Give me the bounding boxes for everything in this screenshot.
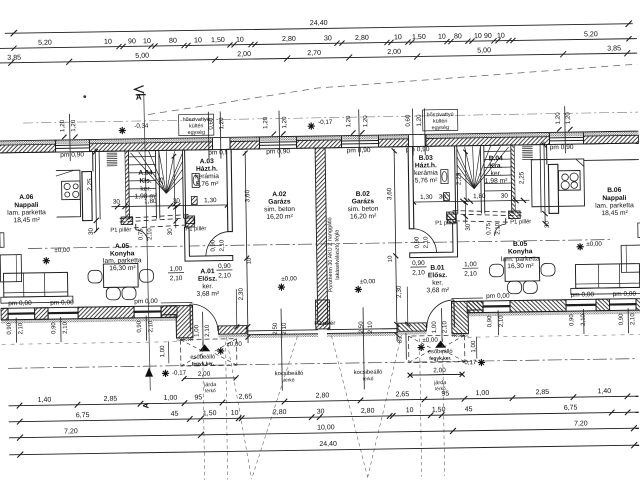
svg-text:30: 30	[113, 199, 121, 206]
bottom window dim lines	[15, 318, 17, 343]
svg-text:2,80: 2,80	[282, 35, 296, 43]
svg-text:Konyha: Konyha	[508, 248, 533, 255]
fraction 1,00 2,10 B	[462, 261, 478, 278]
svg-text:ker.: ker.	[491, 170, 502, 177]
svg-text:A.01: A.01	[200, 268, 215, 275]
svg-text:3,60: 3,60	[244, 189, 251, 202]
svg-text:95: 95	[194, 394, 202, 401]
svg-text:A.06: A.06	[19, 194, 34, 201]
svg-text:5,20: 5,20	[584, 30, 598, 38]
hall dim 2,25	[95, 148, 96, 231]
svg-text:2,10: 2,10	[147, 228, 153, 240]
garage front speckle	[247, 334, 318, 338]
garage dim vertical	[235, 289, 238, 328]
svg-text:B.06: B.06	[607, 187, 622, 194]
overhang dashed line left	[2, 342, 178, 345]
svg-text:2,70: 2,70	[307, 49, 321, 57]
svg-text:A.04: A.04	[138, 170, 153, 177]
svg-text:1,20: 1,20	[345, 115, 352, 128]
svg-text:95: 95	[441, 391, 449, 398]
svg-text:±0,00: ±0,00	[54, 247, 70, 254]
svg-text:0,90: 0,90	[619, 313, 625, 325]
garage front wall lines	[247, 330, 318, 331]
wall A06-hall	[92, 151, 94, 171]
svg-text:lam. parketta: lam. parketta	[103, 257, 142, 265]
svg-text:45: 45	[171, 411, 179, 418]
bottom exterior wall left unit	[1, 317, 177, 323]
svg-text:30: 30	[501, 193, 509, 200]
svg-text:3,85: 3,85	[607, 44, 621, 52]
svg-text:7,20: 7,20	[64, 428, 78, 435]
fraction 0,90 2,10 A	[216, 263, 232, 280]
svg-text:fegyk.ker.: fegyk.ker.	[429, 356, 451, 362]
svg-text:A.05: A.05	[115, 243, 130, 250]
svg-text:10: 10	[194, 36, 202, 44]
svg-text:5,00: 5,00	[135, 52, 149, 60]
svg-text:90: 90	[128, 37, 136, 45]
svg-text:2,10: 2,10	[423, 236, 429, 248]
svg-text:6,75: 6,75	[76, 412, 90, 419]
svg-text:16,30 m²: 16,30 m²	[507, 263, 534, 270]
kitchen counter B	[531, 159, 584, 207]
svg-text:sim. beton: sim. beton	[348, 206, 379, 213]
svg-text:pm 0,00: pm 0,00	[134, 298, 158, 305]
svg-text:1,00: 1,00	[170, 266, 183, 273]
svg-text:P1 pillér: P1 pillér	[435, 220, 456, 226]
svg-text:0,90: 0,90	[412, 260, 425, 267]
svg-text:1,50: 1,50	[432, 407, 446, 414]
svg-text:lakáselválasztó tégla: lakáselválasztó tégla	[334, 230, 341, 280]
svg-text:lam. parketta: lam. parketta	[595, 202, 634, 210]
top exterior wall with windows	[0, 138, 212, 145]
svg-text:1,20: 1,20	[565, 112, 572, 125]
svg-text:0,90: 0,90	[487, 315, 493, 327]
svg-text:2,10: 2,10	[495, 222, 501, 234]
svg-text:lam. parketta: lam. parketta	[7, 209, 46, 217]
svg-text:3,68 m²: 3,68 m²	[426, 287, 450, 294]
svg-text:2,10: 2,10	[581, 313, 587, 325]
esobealo dashed outline	[181, 339, 237, 366]
svg-text:1,20: 1,20	[416, 114, 423, 127]
svg-text:30: 30	[324, 34, 332, 42]
level mark -0,34	[119, 127, 126, 134]
svg-text:-0,17: -0,17	[462, 359, 477, 366]
furniture right unit (sofa, table, chairs)	[575, 264, 639, 289]
stove B	[558, 170, 580, 190]
svg-text:Kra.: Kra.	[489, 163, 502, 170]
svg-text:pm 0,00: pm 0,00	[8, 300, 32, 307]
kocsibealo front dash-dot line	[8, 359, 638, 369]
fraction 1,00 2,10 A	[168, 266, 184, 283]
svg-text:hőszivattyú: hőszivattyú	[183, 117, 210, 123]
svg-text:2,65: 2,65	[239, 394, 253, 401]
dim line 1,00 esobealo	[168, 341, 170, 363]
svg-text:esőbeálló: esőbeálló	[428, 349, 453, 355]
svg-text:10: 10	[394, 33, 402, 41]
party wall Porotherm 30	[315, 148, 328, 324]
svg-text:B.02: B.02	[356, 191, 371, 198]
bottom dim line 4	[9, 445, 639, 455]
svg-text:1,50: 1,50	[412, 33, 426, 41]
svg-text:2,50: 2,50	[358, 321, 365, 334]
svg-text:egység: egység	[188, 130, 205, 136]
svg-text:2,10: 2,10	[219, 239, 225, 251]
svg-text:esőbeálló: esőbeálló	[190, 354, 215, 360]
svg-text:P1 pillér: P1 pillér	[110, 227, 131, 233]
svg-text:±0,00: ±0,00	[586, 241, 602, 248]
esobealo corner wall	[161, 305, 193, 338]
entrance threshold	[218, 326, 247, 335]
svg-text:P1 pillér: P1 pillér	[185, 226, 206, 232]
pillar P1 left	[121, 217, 133, 225]
dashed boundary slope line	[147, 64, 638, 115]
svg-text:1,00: 1,00	[159, 345, 166, 358]
pillar P1 right	[185, 216, 195, 224]
svg-text:Elősz.: Elősz.	[428, 272, 448, 279]
svg-text:2,30: 2,30	[238, 288, 245, 301]
svg-text:kültéri: kültéri	[433, 119, 447, 125]
svg-text:0,90: 0,90	[414, 236, 420, 248]
svg-text:kocsibeálló: kocsibeálló	[354, 370, 383, 376]
svg-text:30: 30	[88, 227, 95, 235]
svg-text:1,00: 1,00	[476, 390, 490, 397]
svg-text:1,30: 1,30	[420, 194, 433, 201]
svg-text:10: 10	[497, 32, 505, 40]
svg-text:18,45 m²: 18,45 m²	[601, 210, 628, 217]
svg-text:2,25: 2,25	[455, 172, 462, 185]
svg-text:18,45 m²: 18,45 m²	[13, 217, 40, 224]
svg-text:A: A	[136, 93, 142, 102]
svg-text:Nappali: Nappali	[14, 202, 38, 209]
svg-text:2,10: 2,10	[464, 271, 477, 278]
svg-text:±0,00: ±0,00	[281, 275, 297, 282]
svg-text:30: 30	[439, 194, 447, 201]
svg-text:hőszivattyú: hőszivattyú	[427, 112, 454, 118]
svg-text:30: 30	[167, 228, 174, 236]
svg-text:2,00: 2,00	[433, 367, 446, 374]
svg-text:B.03: B.03	[419, 155, 434, 162]
svg-text:1,40: 1,40	[38, 397, 52, 404]
svg-text:pm 0,00: pm 0,00	[50, 299, 74, 306]
entrance door leaf and arc	[189, 304, 191, 331]
pillar P2 center	[315, 300, 329, 329]
svg-text:10: 10	[104, 38, 112, 46]
dimension line 24,40 top	[5, 24, 633, 34]
svg-text:2,10: 2,10	[148, 320, 154, 332]
svg-text:1,80: 1,80	[144, 198, 157, 205]
furniture left unit (sofa, table, chairs)	[3, 272, 67, 297]
svg-text:egység: egység	[432, 125, 449, 131]
svg-text:2,85: 2,85	[536, 389, 550, 396]
svg-text:3,85: 3,85	[7, 54, 21, 62]
svg-text:pm 0,00: pm 0,00	[571, 291, 595, 298]
svg-text:24,40: 24,40	[319, 441, 337, 448]
heat pump unit B label	[423, 109, 458, 131]
svg-text:10: 10	[231, 410, 239, 417]
svg-text:1,50: 1,50	[211, 36, 225, 44]
svg-text:1,80: 1,80	[473, 193, 486, 200]
dimension chain line 2 top	[0, 39, 637, 49]
svg-text:1,00: 1,00	[164, 395, 178, 402]
svg-text:2,65: 2,65	[396, 391, 410, 398]
svg-text:0,90: 0,90	[7, 322, 13, 334]
stove A	[62, 181, 81, 200]
svg-text:fegyk.ker.: fegyk.ker.	[192, 361, 214, 367]
svg-text:16,20 m²: 16,20 m²	[350, 213, 377, 220]
svg-text:2,80: 2,80	[316, 392, 330, 399]
section line A-A	[144, 92, 151, 391]
svg-text:2,10: 2,10	[630, 313, 636, 325]
svg-text:2,80: 2,80	[273, 409, 287, 416]
svg-text:B.05: B.05	[513, 241, 528, 248]
svg-text:Garázs: Garázs	[268, 198, 291, 205]
svg-text:P2 pillér: P2 pillér	[314, 321, 335, 327]
garage west wall	[227, 149, 233, 231]
svg-text:5,76 m²: 5,76 m²	[196, 181, 220, 188]
esobealo dim line 2,00	[183, 377, 237, 380]
svg-text:pm 0,90: pm 0,90	[266, 148, 290, 155]
svg-text:80: 80	[454, 32, 462, 40]
svg-text:30: 30	[317, 408, 325, 415]
svg-text:2,25: 2,25	[518, 171, 525, 184]
window dim lines top	[69, 114, 72, 161]
svg-text:2,10: 2,10	[18, 322, 24, 334]
svg-text:10: 10	[406, 407, 414, 414]
svg-text:ker.: ker.	[202, 283, 213, 290]
svg-text:pm 0,00: pm 0,00	[486, 293, 510, 300]
svg-text:pm 0,90: pm 0,90	[60, 151, 84, 158]
svg-text:30: 30	[173, 198, 181, 205]
svg-text:2,80: 2,80	[355, 34, 369, 42]
svg-text:24,40: 24,40	[310, 18, 328, 27]
svg-text:10: 10	[247, 257, 253, 264]
svg-text:1,00: 1,00	[470, 340, 477, 353]
svg-text:10,00: 10,00	[317, 424, 335, 431]
svg-text:1,20: 1,20	[281, 116, 288, 129]
svg-text:-0,17: -0,17	[318, 119, 333, 126]
svg-text:10: 10	[438, 33, 446, 41]
svg-text:ker.: ker.	[432, 280, 443, 287]
dimension chain line 3 top	[0, 53, 637, 63]
svg-text:7,20: 7,20	[574, 420, 588, 427]
svg-text:16,20 m²: 16,20 m²	[266, 213, 293, 220]
stair dim line	[111, 205, 231, 207]
boiler A03	[191, 196, 197, 204]
svg-text:5,76 m²: 5,76 m²	[415, 177, 439, 184]
svg-text:1,00: 1,00	[193, 324, 200, 337]
entrance arrow	[199, 344, 210, 351]
svg-text:0,75: 0,75	[486, 222, 492, 234]
svg-text:0,90: 0,90	[51, 322, 57, 334]
svg-text:±0,00: ±0,00	[422, 337, 438, 344]
svg-text:1,40: 1,40	[597, 388, 611, 395]
svg-text:80: 80	[169, 37, 177, 45]
svg-text:kerámia: kerámia	[195, 173, 219, 180]
svg-text:10: 10	[388, 255, 394, 262]
svg-text:2,00: 2,00	[198, 371, 211, 378]
svg-text:2,30: 2,30	[396, 285, 403, 298]
svg-text:10: 10	[143, 37, 151, 45]
right unit mirrored geometry	[324, 140, 640, 390]
svg-text:ker.: ker.	[140, 186, 151, 193]
svg-text:térkő: térkő	[363, 376, 374, 382]
radiator	[107, 152, 117, 154]
svg-text:2,80: 2,80	[361, 408, 375, 415]
overhang dashed line right	[468, 335, 640, 338]
svg-text:85: 85	[397, 336, 403, 343]
svg-text:kültéri: kültéri	[189, 123, 203, 129]
svg-text:P1 pillér: P1 pillér	[510, 219, 531, 225]
heat pump unit A label	[179, 114, 214, 136]
svg-text:2,10: 2,10	[281, 322, 288, 335]
svg-text:45: 45	[465, 406, 473, 413]
svg-text:pm 0,90: pm 0,90	[347, 147, 371, 154]
svg-text:1,20: 1,20	[555, 112, 562, 125]
svg-text:térkő: térkő	[205, 388, 216, 394]
svg-text:Kls.: Kls.	[139, 178, 152, 185]
svg-text:B.04: B.04	[489, 155, 504, 162]
svg-text:2,10: 2,10	[218, 272, 231, 279]
svg-text:-0,17: -0,17	[172, 370, 187, 377]
svg-text:pm 0,90: pm 0,90	[550, 144, 574, 151]
svg-text:0,75: 0,75	[138, 228, 144, 240]
svg-text:sim. beton: sim. beton	[264, 206, 295, 213]
svg-text:1,00: 1,00	[431, 321, 438, 334]
svg-text:Házt.h.: Házt.h.	[415, 162, 437, 169]
svg-text:3,60: 3,60	[386, 187, 393, 200]
svg-text:1,00: 1,00	[464, 261, 477, 268]
entrance door dim line	[202, 312, 205, 346]
fraction 0,90 2,10 B	[410, 260, 426, 277]
svg-text:2,10: 2,10	[170, 275, 183, 282]
svg-text:2,50: 2,50	[272, 322, 279, 335]
svg-text:0,90: 0,90	[569, 314, 575, 326]
svg-text:10: 10	[236, 36, 244, 44]
svg-text:térkő: térkő	[284, 377, 295, 383]
center axis dash-dot line	[28, 240, 612, 249]
svg-text:B.01: B.01	[430, 265, 445, 272]
bottom dim line 3	[9, 428, 639, 438]
svg-text:1,20: 1,20	[262, 116, 269, 129]
pillar dashed line	[134, 225, 186, 228]
svg-text:2,25: 2,25	[158, 177, 165, 190]
svg-text:2,10: 2,10	[499, 315, 505, 327]
stair door	[136, 230, 148, 242]
svg-text:2,00: 2,00	[237, 50, 251, 58]
kitchen counter A	[56, 170, 81, 217]
svg-text:kocsibeálló: kocsibeálló	[275, 371, 304, 377]
svg-text:0,60: 0,60	[405, 114, 412, 127]
svg-text:A.02: A.02	[272, 191, 287, 198]
svg-text:Porotherm 30 AKU Z hanggátló: Porotherm 30 AKU Z hanggátló	[327, 217, 334, 292]
staircase	[99, 151, 100, 219]
washbasin A03	[192, 173, 199, 187]
garage door dim line	[281, 309, 282, 391]
svg-text:0,90: 0,90	[210, 239, 216, 251]
svg-text:2,10: 2,10	[367, 321, 374, 334]
svg-text:Garázs: Garázs	[352, 198, 375, 205]
svg-text:±0,00: ±0,00	[226, 341, 242, 348]
svg-text:0,90: 0,90	[218, 263, 231, 270]
level mark -0,17	[308, 122, 315, 129]
svg-text:5,20: 5,20	[38, 39, 52, 47]
svg-text:16,30 m²: 16,30 m²	[109, 265, 136, 272]
svg-text:-0,34: -0,34	[134, 123, 149, 130]
stray dot	[83, 95, 86, 98]
svg-text:2,10: 2,10	[63, 321, 69, 333]
pillar above konyha wall	[185, 218, 194, 227]
carport dashed tracks	[203, 342, 205, 480]
svg-text:1,20: 1,20	[362, 115, 369, 128]
svg-text:A.03: A.03	[200, 158, 215, 165]
svg-text:1,98 m²: 1,98 m²	[485, 178, 509, 185]
svg-text:30: 30	[465, 223, 472, 231]
svg-text:2,10: 2,10	[441, 320, 448, 333]
svg-text:3,68 m²: 3,68 m²	[196, 291, 220, 298]
svg-text:kerámia: kerámia	[414, 170, 438, 177]
bottom dim line 1	[9, 396, 639, 406]
counter line B06 right edge	[584, 159, 639, 162]
svg-text:0,90: 0,90	[137, 320, 143, 332]
svg-text:Elősz.: Elősz.	[198, 276, 218, 283]
svg-text:1,20: 1,20	[218, 117, 225, 130]
svg-text:1,30: 1,30	[204, 197, 217, 204]
svg-text:±0,00: ±0,00	[360, 278, 376, 285]
svg-text:2,85: 2,85	[104, 396, 118, 403]
konyha-eloszoba wall	[184, 226, 232, 261]
svg-text:6,75: 6,75	[564, 405, 578, 412]
svg-text:10: 10	[474, 32, 482, 40]
bottom dim line 2	[9, 412, 639, 422]
svg-text:járda: járda	[433, 380, 446, 386]
pillar 30 dim line	[174, 206, 176, 228]
svg-text:2,10: 2,10	[412, 269, 425, 276]
svg-text:30: 30	[544, 220, 551, 228]
svg-text:Nappali: Nappali	[602, 195, 626, 202]
svg-text:Házt.h.: Házt.h.	[196, 166, 218, 173]
dim 85 B	[405, 333, 407, 360]
svg-text:1,20: 1,20	[70, 119, 77, 132]
svg-text:2,00: 2,00	[387, 48, 401, 56]
svg-text:2,10: 2,10	[204, 324, 211, 337]
svg-text:1,50: 1,50	[203, 410, 217, 417]
svg-text:90: 90	[484, 32, 492, 40]
svg-text:járda: járda	[203, 382, 216, 388]
svg-text:pm 0,00: pm 0,00	[613, 291, 637, 298]
svg-text:5,00: 5,00	[477, 46, 491, 54]
garage door to A01 arc	[206, 232, 231, 256]
svg-text:2,25: 2,25	[87, 178, 94, 191]
svg-text:1,20: 1,20	[59, 119, 66, 132]
